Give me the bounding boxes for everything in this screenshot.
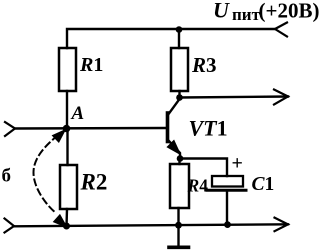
wire: emitter node to R4 <box>178 159 180 165</box>
node A junction dot <box>63 125 71 133</box>
resistor R3 <box>171 48 188 91</box>
junction dot: emitter node <box>177 155 184 162</box>
wire: R3 bottom to collector junction <box>178 91 180 97</box>
svg-text:+: + <box>232 153 243 175</box>
terminal arrow: supply input (open arrow pointing left at wire end) <box>275 23 287 37</box>
svg-text:R2: R2 <box>80 170 108 195</box>
wire: output line to right arrow <box>180 97 288 98</box>
svg-text:A: A <box>71 103 85 124</box>
terminal arrow: output (open arrow pointing right) <box>274 90 288 105</box>
svg-text:б: б <box>2 166 12 187</box>
wire: C1 bottom to ground rail <box>226 191 228 224</box>
junction dot: R4/ground node on rail <box>175 222 182 229</box>
junction dot: R2 node on ground rail <box>63 223 70 230</box>
svg-text:R1: R1 <box>79 54 103 76</box>
wire: R4 bottom to ground rail <box>177 208 179 225</box>
resistor R4 <box>170 164 189 208</box>
junction dot: top rail to R3 <box>176 26 183 33</box>
capacitor C1 negative plate <box>207 189 246 192</box>
junction dot: C1 node on ground rail <box>224 221 231 228</box>
svg-text:(+20В): (+20В) <box>259 0 320 23</box>
wire: R1 bottom to node A <box>66 91 68 128</box>
dashed feedback arc (input loop indicator) <box>34 136 58 214</box>
transistor VT1 emitter arrowhead <box>168 141 180 153</box>
transistor VT1 emitter lead <box>168 140 181 159</box>
ground symbol bar <box>169 246 189 250</box>
junction dot: collector node <box>176 94 183 101</box>
resistor R1 <box>59 48 76 91</box>
svg-text:U: U <box>213 0 230 23</box>
ground symbol stem <box>177 225 179 246</box>
terminal arrow: lower input (open arrow pointing right) <box>5 219 15 233</box>
wire: top rail to R3 top <box>178 29 180 48</box>
svg-text:C1: C1 <box>252 174 275 195</box>
wire: emitter node to C1 top <box>181 159 227 177</box>
resistor R2 <box>60 165 77 209</box>
svg-text:R4: R4 <box>187 176 209 196</box>
dashed arc bottom arrowhead into ground rail <box>54 215 66 226</box>
svg-text:VT1: VT1 <box>189 116 228 141</box>
wire: R2 bottom to ground rail <box>65 209 68 227</box>
svg-text:пит: пит <box>232 5 261 24</box>
svg-text:R3: R3 <box>191 53 217 77</box>
wire: bottom ground rail from left terminal to right arrow <box>14 224 288 226</box>
terminal arrow: upper input (open arrow pointing right) <box>5 122 15 136</box>
dashed arc top arrowhead into node A <box>53 131 64 142</box>
transistor VT1 collector lead <box>168 99 180 116</box>
capacitor C1 positive plate (hollow) <box>212 176 243 187</box>
wire: base input line from left terminal through node A to VT1 base <box>15 127 166 130</box>
terminal arrow: bottom right output (open arrow pointing right) <box>275 218 289 232</box>
transistor VT1 base bar <box>166 113 170 142</box>
wire: node A to R2 top <box>66 129 68 165</box>
wire: top supply rail from R1 corner to right terminal <box>67 29 275 48</box>
